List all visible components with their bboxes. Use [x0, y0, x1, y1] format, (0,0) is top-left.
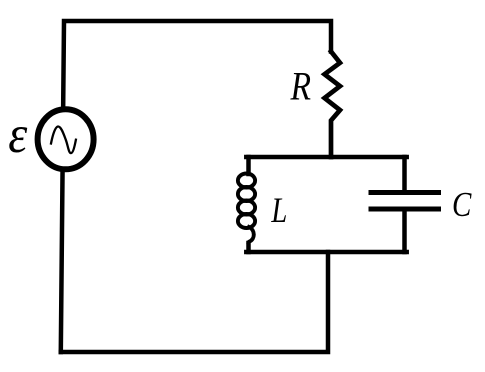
svg-text:ε: ε	[8, 105, 27, 163]
svg-text:L: L	[271, 191, 288, 231]
svg-text:R: R	[290, 64, 311, 108]
svg-text:C: C	[452, 185, 472, 224]
